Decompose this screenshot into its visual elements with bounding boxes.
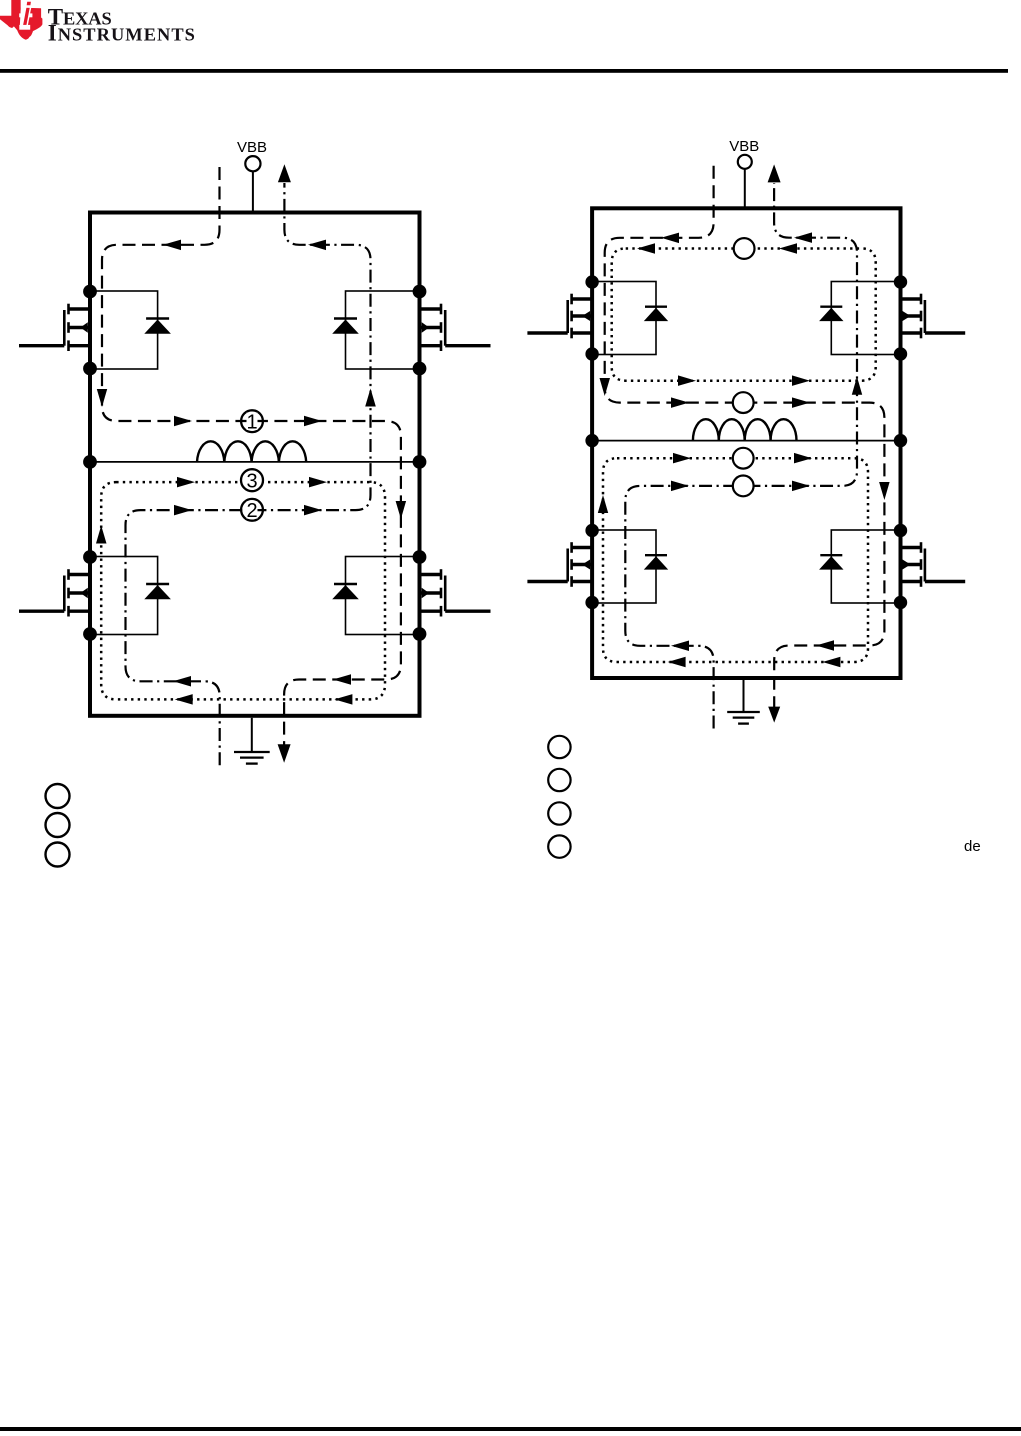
left figure: H-bridge box <box>90 213 420 716</box>
left figure: rail junction dots <box>83 455 426 469</box>
junction dots of Q3 (left low-side) <box>83 550 97 641</box>
right legend circle 1 <box>548 736 570 758</box>
svg-text:3: 3 <box>246 470 257 492</box>
transistor Q2 (right high-side) <box>420 304 491 351</box>
left figure: node marker 2 digit <box>246 500 257 522</box>
svg-text:2: 2 <box>246 500 257 522</box>
body diode of Q7 (left low-side) <box>592 530 668 603</box>
right figure: upper slow decay loop (dotted wire) <box>612 243 876 386</box>
right figure: rail junction dots <box>585 434 907 447</box>
right figure: node marker on upper dotted loop <box>734 238 755 259</box>
right figure: VBB terminal <box>738 155 752 210</box>
transistor Q7 (left low-side) <box>527 542 592 587</box>
svg-text:de: de <box>964 838 981 855</box>
text fragment de <box>964 838 981 855</box>
left figure: node marker circle 1 <box>241 410 263 432</box>
left figure: current path 2 fast decay (dash-dot wire) <box>126 164 376 765</box>
left figure: motor winding inductor <box>197 441 306 462</box>
svg-text:1: 1 <box>246 411 257 433</box>
right legend circle 3 <box>548 802 570 824</box>
right figure: winding rail wire <box>592 440 900 442</box>
junction dots of Q6 (right high-side) <box>894 275 907 360</box>
right figure: fast decay current path (dash-dot wire) <box>625 164 862 728</box>
left figure: current path 1 drive (dashed wire) <box>97 167 406 763</box>
junction dots of Q1 (left high-side) <box>83 285 97 376</box>
footer rule <box>0 1427 1021 1431</box>
transistor Q1 (left high-side) <box>19 304 90 351</box>
body diode of Q3 (left low-side) <box>90 557 171 635</box>
right figure: node marker on lower dotted loop <box>733 448 754 469</box>
left figure: node marker 1 digit <box>246 411 257 433</box>
right legend circle 4 <box>548 835 570 857</box>
right legend circle 2 <box>548 769 570 791</box>
junction dots of Q4 (right low-side) <box>413 550 427 641</box>
right figure: motor winding inductor <box>693 419 797 440</box>
junction dots of Q2 (right high-side) <box>413 285 427 376</box>
left legend circle 1 <box>46 784 70 808</box>
body diode of Q6 (right high-side) <box>819 282 900 355</box>
right figure: node marker on dash-dot path <box>733 476 754 497</box>
left legend circle 3 <box>46 843 70 867</box>
transistor Q8 (right low-side) <box>901 542 966 587</box>
body diode of Q8 (right low-side) <box>819 530 900 603</box>
left figure: current path 3 slow decay (dotted wire loop) <box>96 477 385 705</box>
left figure: VBB label <box>237 139 267 156</box>
transistor Q3 (left low-side) <box>19 569 90 616</box>
transistor Q4 (right low-side) <box>420 569 491 616</box>
right figure: node marker on dashed path <box>733 392 754 413</box>
Texas Instruments logo bug (red Texas map with ti) <box>0 0 42 40</box>
logo word TEXAS <box>48 5 112 30</box>
body diode of Q5 (left high-side) <box>592 282 668 355</box>
junction dots of Q5 (left high-side) <box>585 275 598 360</box>
body diode of Q1 (left high-side) <box>90 291 171 369</box>
transistor Q5 (left high-side) <box>527 294 592 339</box>
body diode of Q4 (right low-side) <box>332 557 419 635</box>
right figure: VBB label <box>729 138 759 155</box>
header rule <box>0 69 1008 73</box>
right figure: H-bridge box <box>592 208 900 678</box>
svg-text:VBB: VBB <box>729 138 759 155</box>
left figure: node marker 3 <box>241 469 263 492</box>
left figure: ground <box>234 718 270 764</box>
left figure: node marker circle 2 <box>241 499 263 521</box>
right figure: drive current path (dashed wire) <box>600 166 890 723</box>
junction dots of Q7 (left low-side) <box>585 524 598 609</box>
left figure: VBB terminal <box>245 156 260 214</box>
right figure: lower slow decay loop (dotted wire) <box>598 453 868 667</box>
left figure: winding rail wire <box>90 461 420 463</box>
transistor Q6 (right high-side) <box>901 294 966 339</box>
svg-text:INSTRUMENTS: INSTRUMENTS <box>48 21 196 46</box>
junction dots of Q8 (right low-side) <box>894 524 907 609</box>
svg-text:VBB: VBB <box>237 139 267 156</box>
body diode of Q2 (right high-side) <box>332 291 419 369</box>
right figure: ground <box>727 680 760 724</box>
logo word INSTRUMENTS <box>48 21 196 46</box>
left legend circle 2 <box>46 813 70 837</box>
